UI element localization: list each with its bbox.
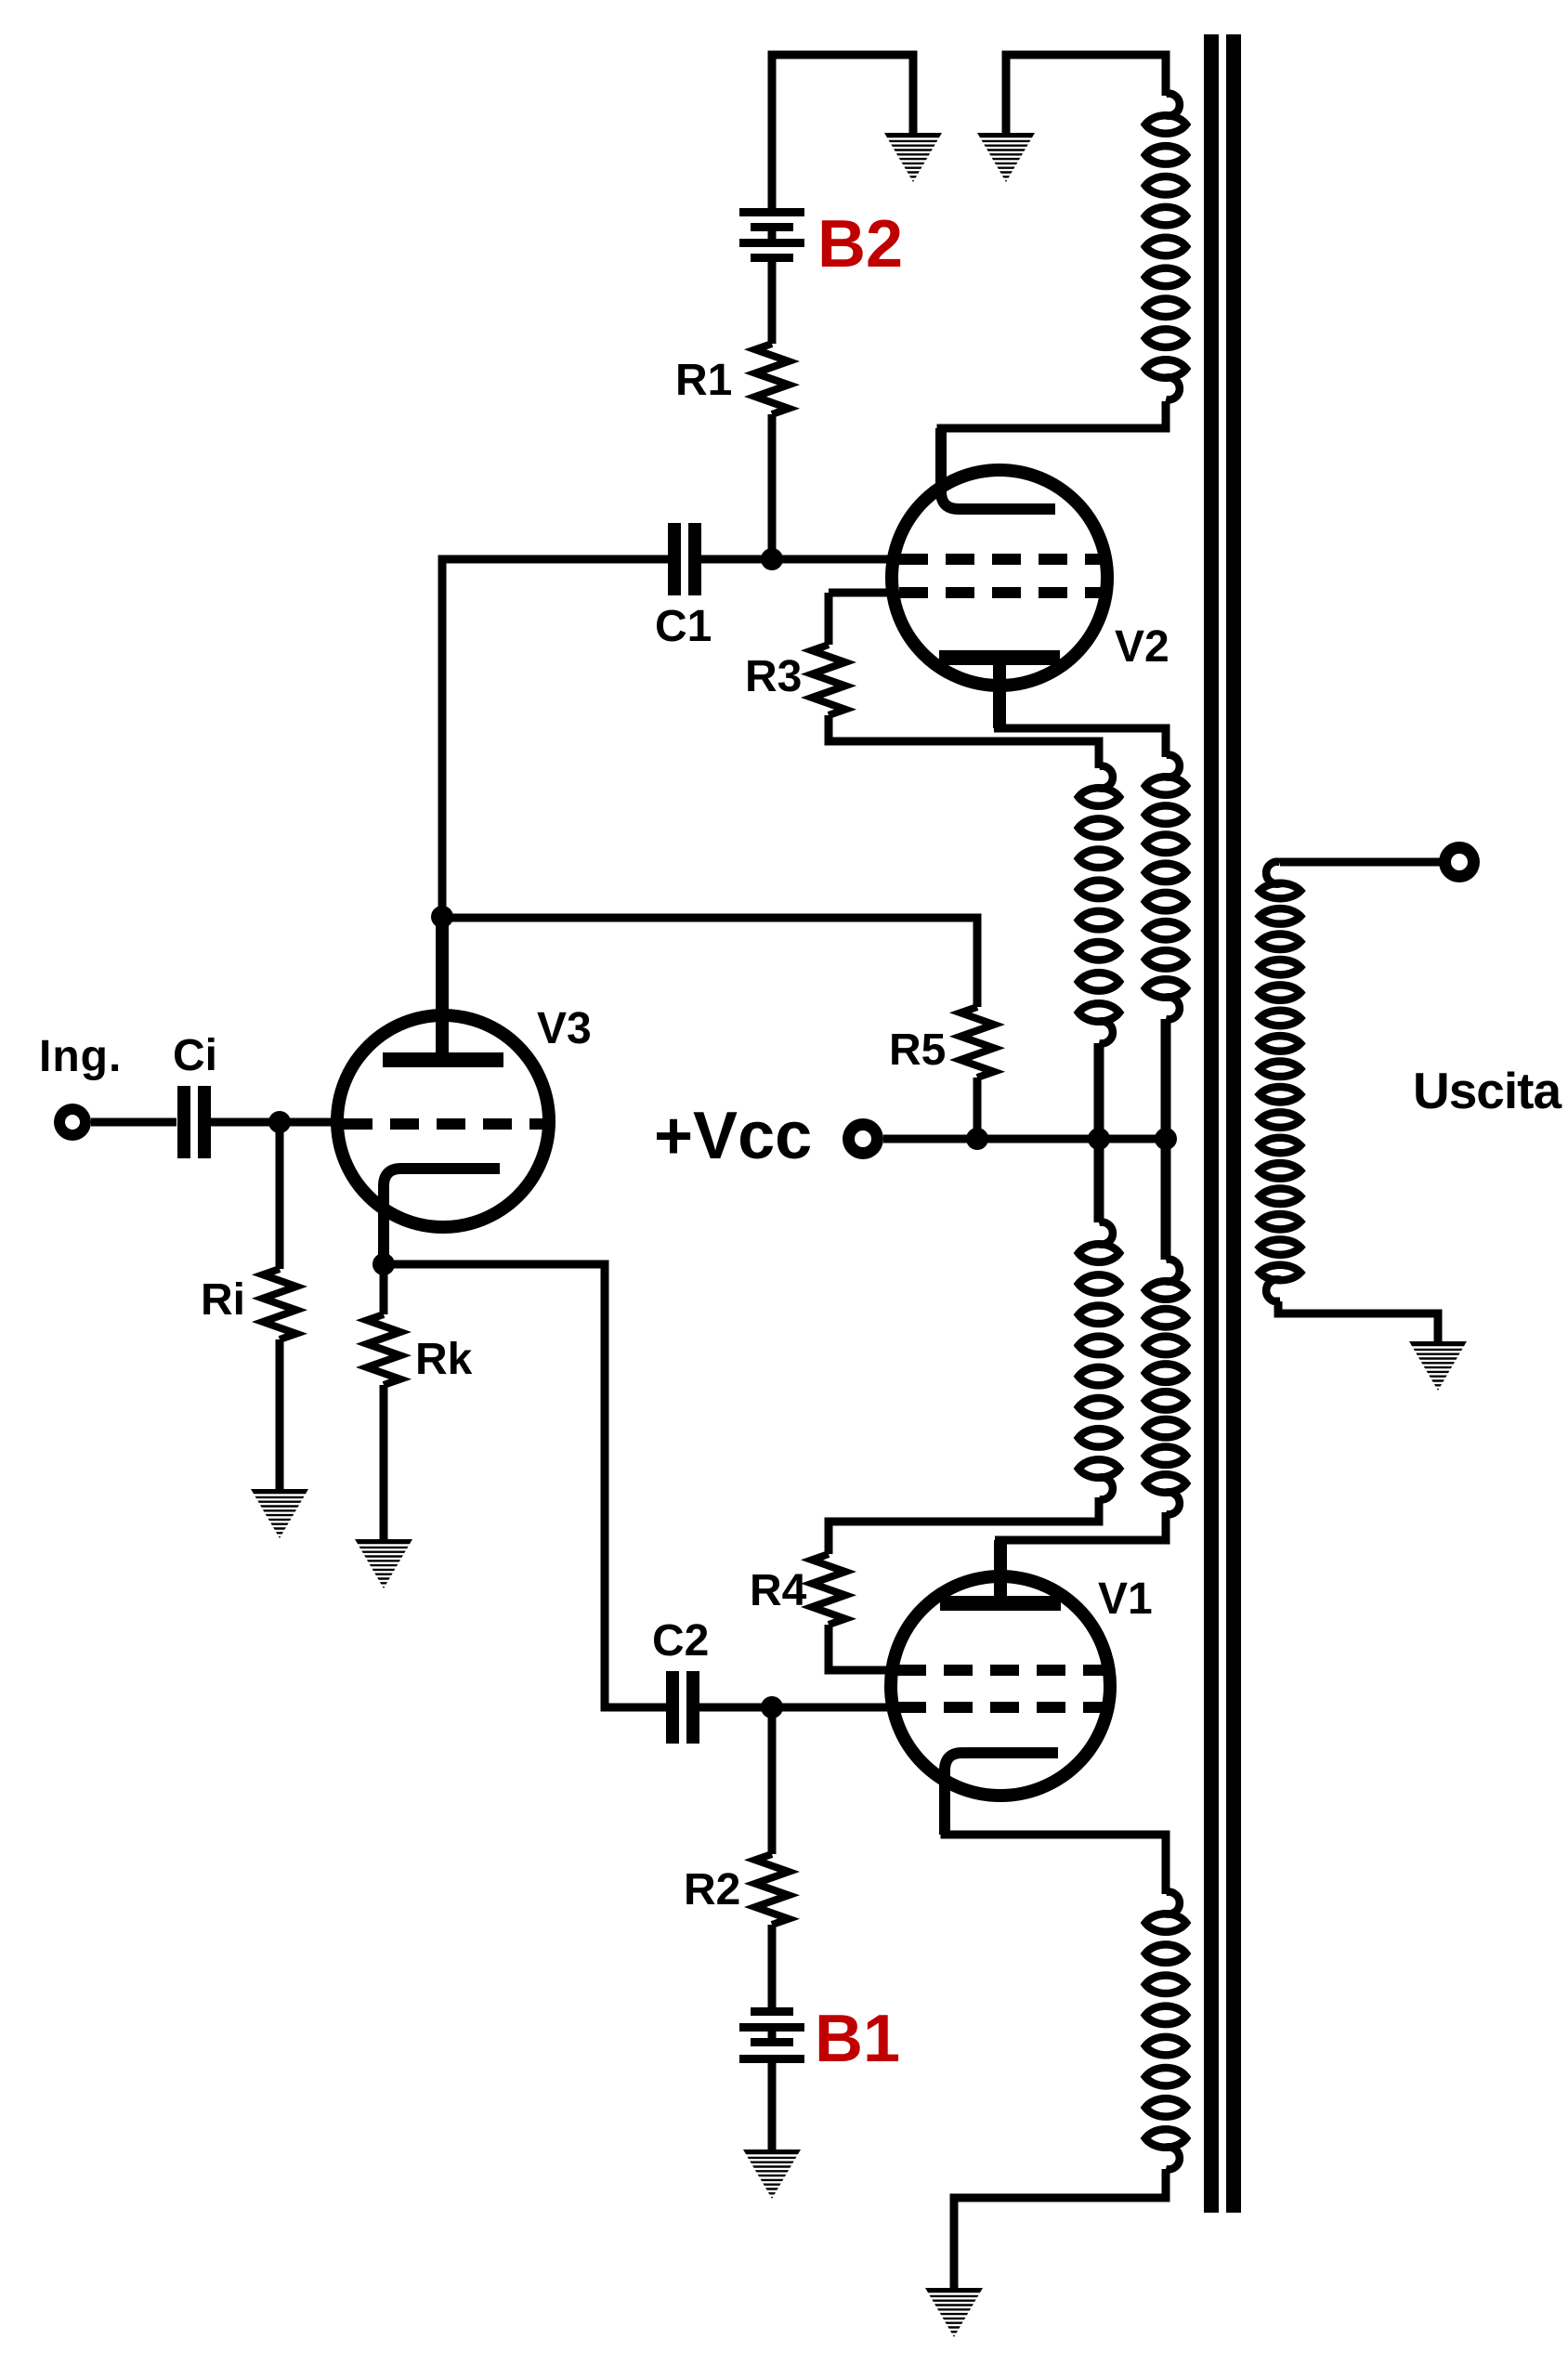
ground (bottom winding) bbox=[925, 2288, 983, 2337]
node: +Vcc/R5 junction bbox=[966, 1128, 988, 1150]
wire: V2 cathode to top winding bbox=[941, 401, 1166, 432]
wire: +Vcc rail down to lower coils bbox=[1099, 1139, 1166, 1260]
wire: R3 top to V2 screen grid bbox=[829, 593, 897, 645]
wire: secondary bottom to ground bbox=[1278, 1301, 1438, 1345]
wire: Ri to ground bbox=[276, 1339, 284, 1493]
svg-text:Ci: Ci bbox=[173, 1031, 217, 1080]
wire: junction down to Ri bbox=[276, 1122, 284, 1269]
svg-text:+Vcc: +Vcc bbox=[654, 1099, 812, 1173]
V3 grid (dashed) bbox=[344, 1118, 542, 1130]
resistor R2 bbox=[755, 1854, 789, 1925]
terminal Ing. (input) bbox=[54, 1104, 91, 1141]
resistor Rk bbox=[367, 1314, 400, 1385]
V1 grid (upper dashed) bbox=[897, 1665, 1104, 1676]
battery B1 bbox=[768, 2029, 777, 2042]
transformer core bar 1 bbox=[1204, 34, 1219, 2213]
wire: B1 to ground bbox=[768, 2063, 777, 2153]
wire: R3 bottom to screen winding (upper left) bbox=[829, 715, 1099, 768]
ground (top right, winding return) bbox=[977, 133, 1035, 182]
node: V3 cathode / Rk junction bbox=[372, 1253, 395, 1275]
primary winding: top feedback coil bbox=[1165, 94, 1180, 116]
svg-text:Uscita: Uscita bbox=[1413, 1062, 1561, 1119]
svg-text:R4: R4 bbox=[750, 1566, 807, 1615]
wire: junction down to V3 plate bbox=[436, 917, 449, 1054]
ground (Rk) bbox=[355, 1539, 412, 1588]
capacitor Ci bbox=[177, 1086, 190, 1158]
wire: V1 plate up to lower plate coil bbox=[994, 1540, 1007, 1600]
node: V3 plate / C1 / R5 junction bbox=[431, 906, 453, 928]
terminal Uscita bbox=[1439, 842, 1480, 882]
wire: C2 to V1 grid bbox=[699, 1704, 897, 1712]
resistor R1 bbox=[755, 344, 789, 414]
node: +Vcc/screen winding junction bbox=[1088, 1128, 1110, 1150]
wire: R5 bottom to +Vcc rail bbox=[973, 1078, 982, 1139]
wire: R1 to grid node of V2 bbox=[768, 414, 777, 559]
resistor R4 bbox=[812, 1554, 845, 1625]
wire: secondary top to Uscita terminal bbox=[1280, 858, 1441, 867]
svg-text:V2: V2 bbox=[1115, 622, 1169, 672]
triode V3 envelope bbox=[337, 1015, 549, 1227]
svg-text:Rk: Rk bbox=[415, 1335, 473, 1384]
primary winding: upper plate coil bbox=[1165, 755, 1180, 777]
V2 cathode bbox=[941, 428, 1055, 509]
resistor R3 bbox=[812, 645, 845, 715]
V1 cathode bbox=[945, 1753, 1058, 1835]
svg-text:C1: C1 bbox=[655, 602, 712, 651]
V1 plate bar bbox=[940, 1596, 1061, 1611]
svg-text:V1: V1 bbox=[1098, 1574, 1153, 1624]
wire: junction down to R2 bbox=[768, 1707, 777, 1854]
V2 plate bar bbox=[939, 650, 1060, 665]
primary winding: bottom feedback coil bbox=[1165, 1892, 1180, 1914]
V3 cathode bbox=[384, 1169, 500, 1264]
primary winding: lower screen coil bbox=[1098, 1222, 1113, 1245]
secondary winding bbox=[1266, 862, 1281, 884]
triode V2 envelope bbox=[892, 470, 1107, 686]
wire: C1 left plate to V3 plate column bbox=[442, 559, 668, 917]
wire: R2 to B1 bbox=[768, 1925, 777, 2011]
capacitor C1 bbox=[668, 523, 681, 595]
battery B2 bbox=[768, 229, 777, 242]
wire: B2 top up and over to ground bbox=[772, 55, 913, 212]
ground (B1) bbox=[743, 2149, 801, 2199]
wire: C1 right plate to V2 grid bbox=[701, 555, 897, 564]
ground (Ri) bbox=[251, 1489, 308, 1538]
primary winding: upper screen coil bbox=[1098, 766, 1113, 789]
svg-text:C2: C2 bbox=[652, 1616, 709, 1666]
wire: upper coils down to +Vcc rail bbox=[1099, 1019, 1166, 1139]
transformer core bar 2 bbox=[1226, 34, 1241, 2213]
svg-text:V3: V3 bbox=[537, 1004, 592, 1053]
wire: R4 top horizontal to lower screen coil bbox=[829, 1497, 1099, 1554]
wire: cathode junction to Rk bbox=[380, 1264, 388, 1314]
svg-text:R1: R1 bbox=[675, 356, 732, 405]
V3 plate bar bbox=[383, 1052, 503, 1067]
wire: input to Ci bbox=[91, 1118, 176, 1127]
svg-text:B2: B2 bbox=[817, 207, 903, 281]
node: Ci/Ri/V3 grid junction bbox=[268, 1111, 291, 1133]
V1 grid 2 (lower dashed) bbox=[897, 1702, 1104, 1713]
svg-text:R5: R5 bbox=[889, 1026, 946, 1075]
capacitor C2 bbox=[666, 1671, 679, 1744]
wire: bottom coil to ground bbox=[954, 2169, 1166, 2292]
wire: V2 plate to plate winding (upper right) bbox=[993, 661, 1006, 728]
wire: R4 bottom to V1 screen grid bbox=[829, 1625, 897, 1670]
resistor R5 bbox=[960, 1007, 994, 1078]
resistor Ri bbox=[263, 1269, 296, 1339]
svg-text:R3: R3 bbox=[745, 652, 802, 701]
terminal +Vcc bbox=[843, 1118, 883, 1159]
wire: V3 cathode to C2 bbox=[384, 1264, 666, 1707]
wire: primary top winding up and over to ground bbox=[1006, 55, 1166, 137]
ground (secondary) bbox=[1409, 1341, 1467, 1391]
V2 grid 2 (lower dashed) bbox=[899, 587, 1102, 598]
primary winding: lower plate coil bbox=[1165, 1260, 1180, 1282]
svg-text:Ri: Ri bbox=[201, 1275, 245, 1325]
node: +Vcc/plate winding junction bbox=[1155, 1128, 1177, 1150]
node: C2/R2/V1 grid junction bbox=[761, 1696, 783, 1718]
wire: +Vcc rail bbox=[883, 1135, 1166, 1143]
svg-text:B1: B1 bbox=[815, 2002, 900, 2076]
V2 grid (upper dashed) bbox=[899, 554, 1102, 565]
ground (top left, B2 return) bbox=[884, 133, 942, 182]
node: junction R1/C1/V2 grid bbox=[761, 548, 783, 570]
wire: R5 top to V3 plate node bbox=[442, 918, 977, 1007]
wire: B2 to R1 bbox=[768, 260, 777, 344]
wire: Ci to V3 grid bbox=[211, 1118, 340, 1127]
svg-text:Ing.: Ing. bbox=[39, 1032, 122, 1081]
wire: Rk to ground bbox=[380, 1385, 388, 1543]
svg-text:R2: R2 bbox=[684, 1865, 740, 1914]
triode V1 envelope bbox=[891, 1576, 1110, 1796]
wire: V1 cathode to bottom coil bbox=[945, 1831, 1166, 1894]
